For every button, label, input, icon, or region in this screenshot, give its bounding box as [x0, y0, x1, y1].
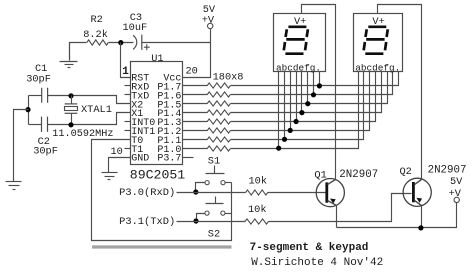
- junction S2 / P3.1: [193, 218, 198, 223]
- junction Q2 emitter / rail: [418, 225, 423, 230]
- wire display1 pin dp down: [319, 72, 321, 86]
- transistor Q2 collector: [415, 180, 422, 185]
- pin stub T1: [125, 148, 131, 150]
- wire 10k to Q2 base: [269, 194, 412, 222]
- pin stub P1.7 to resistor: [183, 85, 208, 87]
- ground R2 bar2: [65, 64, 74, 66]
- svg-text:R2: R2: [91, 14, 103, 26]
- junction left bus to ground branch: [25, 107, 30, 112]
- svg-text:P3.7: P3.7: [157, 154, 181, 165]
- wire P1.2 to display2 pin c: [231, 72, 370, 131]
- svg-text:10: 10: [111, 146, 123, 158]
- junction C2/XTAL1 bottom: [68, 122, 73, 127]
- segment a DS1: [288, 25, 306, 28]
- terminal +V top (open circle): [208, 23, 213, 28]
- switch S1 actuator bar: [206, 173, 225, 175]
- segment a DS2: [368, 25, 386, 28]
- ground2 bar2: [9, 185, 20, 187]
- junction node R2/C3/RST: [118, 40, 123, 45]
- wire P1.3 to display2 pin d: [231, 72, 376, 122]
- wire display1 pin e down: [301, 72, 303, 113]
- junction C1/XTAL1 top: [68, 93, 73, 98]
- junction P1.1 / display1 b: [282, 137, 287, 142]
- resistor 180ohm row P1.6: [207, 92, 230, 97]
- wire C2 to X1 pin: [48, 113, 131, 125]
- svg-text:U1: U1: [151, 53, 163, 65]
- svg-text:abcdefg.: abcdefg.: [276, 63, 321, 74]
- wire P1.6 to display2 pin g: [231, 72, 393, 95]
- wire left bus vertical: [28, 96, 30, 125]
- wire S1 left contact to P3.0: [196, 183, 206, 192]
- capacitor C2 plates: [42, 117, 48, 132]
- transistor Q1 body: [316, 179, 344, 207]
- transistor Q2 emitter: [415, 201, 422, 206]
- wire display1 pin d down: [296, 72, 298, 122]
- wire DS1 V+ to Q1 collector: [302, 5, 336, 180]
- svg-text:Q2: Q2: [400, 166, 412, 178]
- svg-text:180x8: 180x8: [213, 71, 244, 83]
- resistor 180ohm row P1.0: [207, 146, 230, 151]
- switch S2 actuator bar: [206, 203, 224, 205]
- pin stub P3.7: [183, 157, 194, 159]
- svg-text:P3.1(TxD): P3.1(TxD): [119, 216, 175, 228]
- crystal XTAL1 body: [65, 107, 78, 111]
- segment c DS2: [385, 42, 386, 50]
- wire S2 left contact to P3.1: [197, 214, 205, 221]
- transistor Q1 collector: [328, 180, 336, 185]
- resistor R2 8.2k zigzag: [87, 40, 108, 45]
- resistor 180ohm row P1.5: [207, 101, 230, 106]
- wire display1 pin c down: [290, 72, 292, 131]
- switch S1 left contact: [205, 181, 209, 185]
- junction P1.2 / display1 c: [288, 128, 293, 133]
- junction P1.0 / display1 a: [276, 146, 281, 151]
- resistor R3 10k: [246, 190, 268, 195]
- junction P1.6 / display1 g: [311, 92, 316, 97]
- wire C3 plate to 5V rail: [142, 42, 211, 44]
- wire S1 right contact to common: [226, 182, 232, 184]
- wire XTAL1 top stub: [71, 96, 73, 104]
- svg-text:abcdefg.: abcdefg.: [355, 63, 400, 74]
- wire P3.1 net: [177, 221, 246, 223]
- keypad common shadow line: [92, 245, 232, 248]
- pin stub INT1: [125, 130, 131, 132]
- wire left bus to C1: [29, 95, 42, 97]
- wire P1.1 to display2 pin b: [231, 72, 364, 140]
- switch S1 right contact: [221, 181, 225, 185]
- svg-text:+V: +V: [449, 188, 462, 200]
- svg-text:20: 20: [186, 66, 198, 78]
- wire T0 keypad common: [92, 140, 232, 241]
- svg-text:S2: S2: [208, 228, 220, 240]
- ground2 bar3: [13, 189, 16, 191]
- wire +V terminal down to Vcc rail: [183, 29, 211, 78]
- segment g DS2: [366, 38, 384, 41]
- transistor Q2 base bar: [412, 182, 415, 202]
- wire emitter rail to +V terminal: [337, 203, 457, 228]
- capacitor C1 plates: [42, 88, 48, 103]
- pin stub P1.0 to resistor: [183, 148, 208, 150]
- wire Q1 emitter to rail: [336, 206, 338, 228]
- wire P1.0 to display2 pin a: [231, 72, 359, 149]
- wire Q2 emitter to rail: [421, 206, 423, 228]
- wire GND pin to ground: [109, 158, 131, 173]
- svg-text:XTAL1: XTAL1: [81, 104, 112, 116]
- capacitor C3 straight plate: [141, 35, 143, 50]
- segment d DS2: [365, 52, 383, 55]
- pin stub P1.2 to resistor: [183, 130, 208, 132]
- svg-text:11.0592MHz: 11.0592MHz: [52, 129, 113, 140]
- wire left bus to C2: [29, 124, 42, 126]
- wire S2 right contact to common: [226, 213, 232, 215]
- switch S2 right contact: [221, 211, 225, 215]
- segment b DS2: [387, 29, 388, 37]
- wire bus to ground2: [14, 110, 29, 182]
- display DS2 box: [354, 14, 403, 72]
- pin stub P1.3 to resistor: [183, 121, 208, 123]
- switch S2 left contact: [205, 211, 209, 215]
- junction S1 / P3.0: [193, 189, 198, 194]
- resistor R4 10k: [245, 219, 269, 224]
- wire C1 to X2 pin: [48, 96, 131, 104]
- resistor 180ohm row P1.7: [207, 83, 230, 88]
- junction P1.4 / display1 e: [299, 110, 304, 115]
- svg-text:30pF: 30pF: [33, 146, 58, 158]
- svg-text:10uF: 10uF: [123, 22, 148, 34]
- wire node down to RST pin 1: [121, 43, 131, 78]
- wire P1.7 to display2 pin dp: [231, 72, 399, 86]
- pin stub P1.1 to resistor: [183, 139, 208, 141]
- wire display1 pin f down: [307, 72, 309, 104]
- terminal +V right (open circle): [454, 197, 459, 202]
- segment f DS2: [366, 29, 367, 37]
- transistor Q1 emitter arrow: [330, 199, 336, 204]
- svg-text:GND: GND: [131, 154, 149, 165]
- wire display1 pin a down: [278, 72, 280, 149]
- segment b DS1: [307, 29, 308, 37]
- crystal XTAL1 top plate: [65, 103, 78, 105]
- resistor 180ohm row P1.4: [207, 110, 230, 115]
- junction P1.7 / display1 dp: [317, 83, 322, 88]
- svg-text:10k: 10k: [249, 176, 268, 188]
- pin stub P1.5 to resistor: [183, 103, 208, 105]
- pin stub RxD: [125, 85, 131, 87]
- wire display1 pin b down: [284, 72, 286, 140]
- wire 10k to Q1 base: [268, 192, 327, 194]
- svg-text:30pF: 30pF: [26, 74, 51, 86]
- junction P1.5 / display1 f: [305, 101, 310, 106]
- op IC U1 box: [131, 62, 183, 165]
- segment e DS2: [364, 42, 365, 50]
- wire R2 right to node RST: [109, 42, 134, 44]
- resistor 180ohm row P1.2: [207, 128, 230, 133]
- junction P1.3 / display1 d: [294, 119, 299, 124]
- pin stub INT0: [125, 121, 131, 123]
- capacitor C3 curved plate: [133, 35, 137, 49]
- segment f DS1: [286, 29, 287, 37]
- svg-text:8.2k: 8.2k: [83, 29, 108, 41]
- ground R2 stem: [69, 43, 71, 61]
- ground R2 bar1: [60, 61, 78, 63]
- wire P1.5 to display2 pin f: [231, 72, 388, 104]
- segment g DS1: [286, 38, 304, 41]
- display DS1 box: [274, 14, 326, 72]
- wire XTAL1 bottom stub: [71, 114, 73, 125]
- transistor Q1 base bar: [325, 182, 328, 202]
- svg-text:2N2907: 2N2907: [339, 169, 378, 181]
- resistor 180ohm row P1.3: [207, 119, 230, 124]
- transistor Q2 body: [403, 178, 431, 206]
- ground3 bar2: [105, 176, 115, 178]
- svg-text:1: 1: [122, 66, 129, 78]
- ground3 bar1: [102, 172, 118, 174]
- wire P3.0 net: [177, 192, 246, 194]
- svg-text:89C2051: 89C2051: [130, 167, 185, 182]
- ground3 bar3: [108, 179, 111, 181]
- wire DS2 V+ to Q2 collector: [378, 5, 422, 180]
- capacitor C3 plus sign: [144, 44, 150, 50]
- pin stub P1.6 to resistor: [183, 94, 208, 96]
- wire ground1 up to R2 left: [70, 43, 87, 61]
- svg-text:P3.0(RxD): P3.0(RxD): [119, 187, 175, 199]
- wire P1.4 to display2 pin e: [231, 72, 382, 113]
- resistor 180ohm row P1.1: [207, 137, 230, 142]
- crystal XTAL1 bottom plate: [65, 112, 78, 114]
- wire display1 pin g down: [313, 72, 315, 95]
- pin stub P1.4 to resistor: [183, 112, 208, 114]
- svg-text:5V: 5V: [450, 176, 463, 188]
- transistor Q2 emitter arrow: [416, 198, 422, 203]
- svg-text:W.Sirichote 4 Nov'42: W.Sirichote 4 Nov'42: [251, 257, 383, 269]
- transistor Q1 emitter: [328, 201, 337, 206]
- segment d DS1: [285, 52, 303, 55]
- switch S1 actuator stem: [214, 166, 216, 174]
- pin stub TxD: [125, 94, 131, 96]
- ground2 bar1: [6, 181, 22, 183]
- svg-text:2N2907: 2N2907: [428, 164, 467, 176]
- svg-text:7-segment & keypad: 7-segment & keypad: [250, 242, 369, 254]
- switch S2 actuator stem: [215, 197, 217, 204]
- svg-text:10k: 10k: [248, 204, 267, 216]
- segment c DS1: [305, 42, 306, 50]
- ground R2 bar3: [68, 67, 71, 69]
- segment e DS1: [284, 42, 285, 50]
